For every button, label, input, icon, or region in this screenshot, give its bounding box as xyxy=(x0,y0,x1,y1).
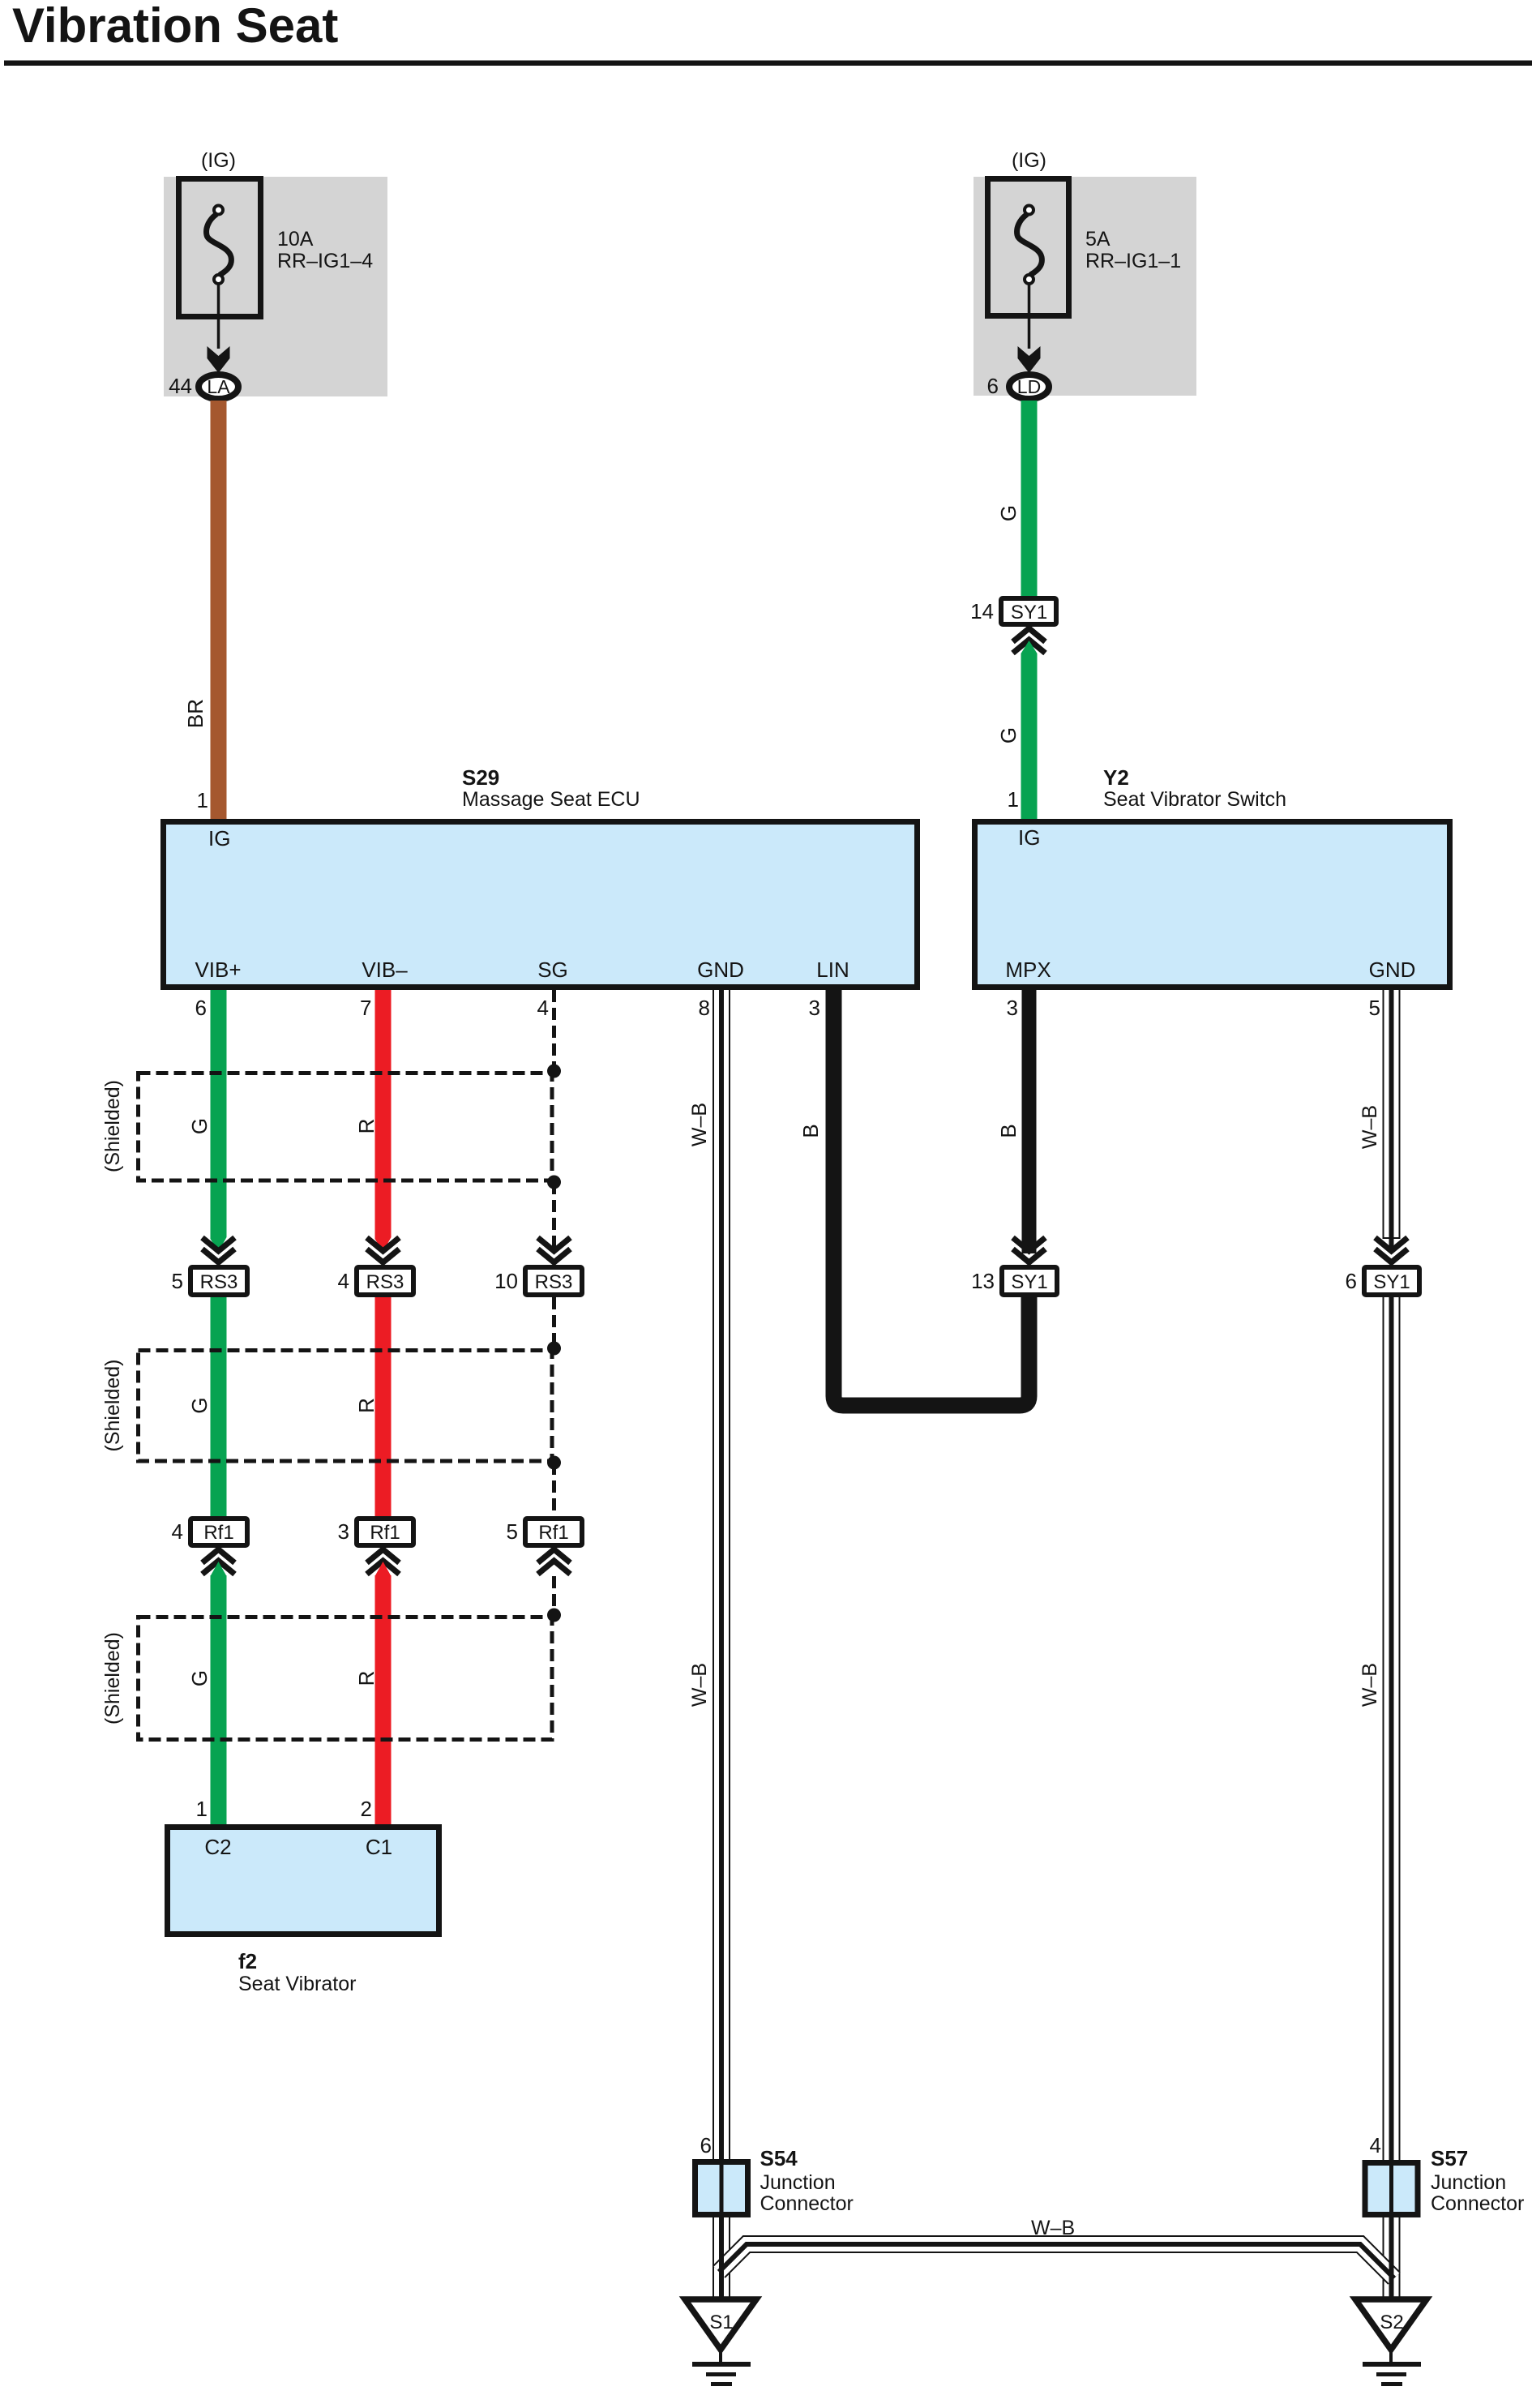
svg-text:Rf1: Rf1 xyxy=(370,1522,400,1544)
svg-text:RS3: RS3 xyxy=(366,1271,404,1293)
svg-text:S54: S54 xyxy=(760,2146,798,2170)
wire SG dashed upper segment xyxy=(552,990,556,1253)
svg-text:(Shielded): (Shielded) xyxy=(101,1632,124,1725)
svg-text:SY1: SY1 xyxy=(1011,602,1047,623)
svg-text:RR–IG1–1: RR–IG1–1 xyxy=(1085,250,1181,272)
svg-text:Connector: Connector xyxy=(760,2192,854,2215)
label (IG) right xyxy=(1012,149,1046,172)
svg-text:10A: 10A xyxy=(277,228,314,251)
fuse 10A RR-IG1-4 xyxy=(179,179,261,349)
wire color label G lower xyxy=(996,727,1021,743)
svg-text:C2: C2 xyxy=(204,1835,231,1859)
wire color label BR xyxy=(183,699,208,728)
title Vibration Seat xyxy=(12,0,338,53)
chevron arrows down above RS3 (G) xyxy=(203,1238,235,1263)
connector 3 Rf1 xyxy=(357,1519,413,1545)
wire color label G shield 3 xyxy=(187,1670,212,1686)
svg-text:W–B: W–B xyxy=(688,1103,711,1146)
wire BR from LA to S29 pin 1 xyxy=(211,401,227,819)
pin number 4 (SG) xyxy=(537,996,549,1020)
wire G from LD to connector SY1 pin 14 xyxy=(1021,401,1038,596)
ground point S1 xyxy=(685,2299,756,2364)
shielded cable box 2 xyxy=(139,1351,553,1462)
pin number 13 (SY1) xyxy=(971,1269,995,1293)
svg-text:6: 6 xyxy=(987,374,999,398)
svg-text:S57: S57 xyxy=(1431,2146,1468,2170)
chevron arrows down above RS3 (SG) xyxy=(538,1238,571,1263)
wire W-B stripe S57 to S2 xyxy=(1389,2217,1394,2304)
svg-text:R: R xyxy=(354,1119,379,1134)
svg-text:Rf1: Rf1 xyxy=(203,1522,233,1544)
label (IG) left xyxy=(201,149,236,172)
svg-text:4: 4 xyxy=(537,996,549,1020)
svg-text:B: B xyxy=(798,1124,823,1138)
svg-text:RS3: RS3 xyxy=(535,1271,573,1293)
svg-text:1: 1 xyxy=(1008,787,1019,812)
svg-text:f2: f2 xyxy=(238,1949,257,1973)
connector 14 SY1 xyxy=(1001,598,1056,624)
pin number 1 (f2 C2) xyxy=(196,1797,208,1821)
svg-text:LD: LD xyxy=(1017,376,1041,397)
svg-text:14: 14 xyxy=(970,599,994,623)
svg-text:3: 3 xyxy=(338,1519,349,1544)
svg-text:3: 3 xyxy=(809,996,820,1020)
vibrator f2 label xyxy=(238,1949,356,1995)
svg-text:S1: S1 xyxy=(709,2312,733,2333)
svg-text:Seat Vibrator: Seat Vibrator xyxy=(238,1973,356,1995)
svg-text:(Shielded): (Shielded) xyxy=(101,1080,124,1172)
ground symbol S1 bars xyxy=(692,2364,751,2384)
wire W-B lower segment to S57 xyxy=(1383,1297,1401,2160)
pin number 3 (LIN) xyxy=(809,996,820,1020)
svg-text:7: 7 xyxy=(360,996,371,1020)
connector 10 RS3 xyxy=(525,1267,582,1295)
svg-text:BR: BR xyxy=(183,699,208,728)
wire W-B from GND pin 8 to S54 xyxy=(713,990,730,2159)
svg-text:Vibration Seat: Vibration Seat xyxy=(12,0,338,53)
pin number 4 (S57) xyxy=(1370,2133,1381,2157)
svg-text:S2: S2 xyxy=(1380,2312,1403,2333)
wire color label R shield 1 xyxy=(354,1119,379,1134)
wire W-B from Y2 GND pin 5 to SY1 pin 6 xyxy=(1383,990,1401,1252)
svg-text:C1: C1 xyxy=(366,1835,392,1859)
shielded cable box 1 xyxy=(139,1073,553,1181)
wire color label G shield 1 xyxy=(187,1118,212,1134)
wire R VIB- middle segment xyxy=(375,1297,392,1516)
svg-text:6: 6 xyxy=(700,2133,712,2157)
svg-text:G: G xyxy=(187,1670,212,1686)
connector 5 Rf1 xyxy=(525,1519,582,1545)
connector 4 Rf1 xyxy=(190,1519,247,1545)
arrowhead into pin 44 xyxy=(208,346,230,373)
wire color label G shield 2 xyxy=(187,1397,212,1413)
svg-text:RS3: RS3 xyxy=(200,1271,238,1293)
ECU S29 label xyxy=(462,765,640,811)
connector pin 6 LD xyxy=(1009,375,1049,399)
fuse 5A RR-IG1-1 xyxy=(988,179,1069,349)
svg-text:5: 5 xyxy=(507,1519,518,1544)
junction dot shield1 top xyxy=(547,1065,561,1078)
svg-text:B: B xyxy=(996,1124,1021,1138)
wire G VIB+ upper segment xyxy=(211,990,227,1252)
svg-text:10: 10 xyxy=(494,1269,518,1293)
chevron arrows up below Rf1 (R) xyxy=(367,1549,400,1575)
ground point S2 xyxy=(1355,2299,1427,2364)
wire color label R shield 2 xyxy=(354,1398,379,1413)
pin number 3 (MPX) xyxy=(1007,996,1018,1020)
svg-text:4: 4 xyxy=(338,1269,349,1293)
junction dot shield2 bottom xyxy=(547,1456,561,1470)
svg-text:MPX: MPX xyxy=(1005,958,1051,982)
svg-text:IG: IG xyxy=(1018,825,1040,850)
pin number 8 (GND) xyxy=(699,996,710,1020)
svg-text:13: 13 xyxy=(971,1269,995,1293)
svg-text:4: 4 xyxy=(172,1519,183,1544)
pin number 1 (Y2 IG) xyxy=(1008,787,1019,812)
switch Y2 Seat Vibrator Switch box xyxy=(975,822,1450,988)
fuse rating label 10A RR-IG1-4 xyxy=(277,228,373,272)
svg-text:(Shielded): (Shielded) xyxy=(101,1360,124,1452)
chevron arrows up below Rf1 (SG) xyxy=(538,1549,571,1575)
wire color label W-B right lower xyxy=(1359,1663,1381,1707)
svg-text:SY1: SY1 xyxy=(1373,1271,1410,1293)
svg-text:5: 5 xyxy=(172,1269,183,1293)
pin number 3 (Rf1) xyxy=(338,1519,349,1544)
svg-text:S29: S29 xyxy=(462,765,499,790)
connector 6 SY1 xyxy=(1364,1267,1419,1295)
label (Shielded) 3 xyxy=(101,1632,124,1725)
pin number 10 (RS3) xyxy=(494,1269,518,1293)
svg-text:G: G xyxy=(996,505,1021,521)
svg-text:8: 8 xyxy=(699,996,710,1020)
svg-text:Seat Vibrator Switch: Seat Vibrator Switch xyxy=(1103,788,1286,811)
svg-text:R: R xyxy=(354,1398,379,1413)
chevron arrows down above SY1 pin 13 xyxy=(1013,1238,1046,1263)
chevron arrows up below SY1 xyxy=(1013,628,1046,653)
svg-text:G: G xyxy=(187,1118,212,1134)
svg-text:RR–IG1–4: RR–IG1–4 xyxy=(277,250,373,272)
svg-text:(IG): (IG) xyxy=(1012,149,1046,172)
shielded cable box 3 xyxy=(139,1617,553,1740)
label (Shielded) 1 xyxy=(101,1080,124,1172)
pin number 1 (S29 IG) xyxy=(197,788,208,812)
pin number 5 (Y2 GND) xyxy=(1369,996,1380,1020)
wire color label W-B left upper xyxy=(688,1103,711,1146)
svg-text:(IG): (IG) xyxy=(201,149,236,172)
svg-text:LIN: LIN xyxy=(816,958,849,982)
wire color label B left xyxy=(798,1124,823,1138)
wire W-B horizontal link between grounds xyxy=(719,2244,1394,2278)
wire SG dashed lower segment xyxy=(552,1576,556,1615)
svg-text:Y2: Y2 xyxy=(1103,765,1129,790)
svg-text:W–B: W–B xyxy=(1359,1105,1381,1149)
svg-text:3: 3 xyxy=(1007,996,1018,1020)
wire color label R shield 3 xyxy=(354,1671,379,1686)
switch Y2 label xyxy=(1103,765,1286,811)
fuse block background left xyxy=(164,177,387,396)
pin number 6 (SY1) xyxy=(1346,1269,1357,1293)
junction connector S54 box xyxy=(695,2159,748,2217)
vibrator f2 Seat Vibrator box xyxy=(168,1827,439,1935)
svg-text:GND: GND xyxy=(697,958,744,982)
pin number 5 (RS3) xyxy=(172,1269,183,1293)
connector pin 44 LA xyxy=(199,375,238,399)
junction connector S54 label xyxy=(760,2146,854,2215)
label (Shielded) 2 xyxy=(101,1360,124,1452)
wire W-B stripe S54 to S1 xyxy=(719,2217,724,2304)
svg-text:6: 6 xyxy=(1346,1269,1357,1293)
svg-text:Massage Seat ECU: Massage Seat ECU xyxy=(462,788,640,811)
wire color label B right xyxy=(996,1124,1021,1138)
chevron arrows down above SY1 pin 6 xyxy=(1376,1238,1408,1263)
connector 4 RS3 xyxy=(357,1267,413,1295)
pin number 5 (Rf1) xyxy=(507,1519,518,1544)
pin number 6 xyxy=(987,374,999,398)
wire W-B from S57 to ground S2 xyxy=(1383,2217,1401,2303)
svg-text:1: 1 xyxy=(197,788,208,812)
fuse block background right xyxy=(974,177,1196,396)
junction dot shield3 top xyxy=(547,1609,561,1622)
svg-text:W–B: W–B xyxy=(1359,1663,1381,1707)
wire color label W-B right upper xyxy=(1359,1105,1381,1149)
svg-text:Connector: Connector xyxy=(1431,2192,1524,2215)
pin number 6 (S54) xyxy=(700,2133,712,2157)
pin number 4 (RS3) xyxy=(338,1269,349,1293)
svg-text:4: 4 xyxy=(1370,2133,1381,2157)
pin number 4 (Rf1) xyxy=(172,1519,183,1544)
svg-text:W–B: W–B xyxy=(688,1663,711,1707)
pin number 7 (VIB-) xyxy=(360,996,371,1020)
junction dot shield1 bottom xyxy=(547,1176,561,1189)
ground symbol S2 bars xyxy=(1363,2364,1421,2384)
fuse rating label 5A RR-IG1-1 xyxy=(1085,228,1181,272)
connector 5 RS3 xyxy=(190,1267,247,1295)
svg-text:SY1: SY1 xyxy=(1011,1271,1047,1293)
wire color label G upper xyxy=(996,505,1021,521)
svg-text:2: 2 xyxy=(361,1797,372,1821)
svg-text:5A: 5A xyxy=(1085,228,1110,251)
wire R VIB- lower segment xyxy=(375,1562,392,1824)
wire B from MPX pin 3 to SY1 xyxy=(1022,990,1037,1253)
wire G from SY1 to Y2 pin 1 xyxy=(1021,641,1038,819)
svg-text:VIB–: VIB– xyxy=(362,958,408,982)
svg-text:1: 1 xyxy=(196,1797,208,1821)
svg-text:44: 44 xyxy=(169,374,192,398)
svg-text:GND: GND xyxy=(1369,958,1416,982)
svg-text:5: 5 xyxy=(1369,996,1380,1020)
pin number 6 (VIB+) xyxy=(195,996,207,1020)
svg-text:R: R xyxy=(354,1671,379,1686)
svg-text:IG: IG xyxy=(208,826,230,851)
wire R VIB- upper segment xyxy=(375,990,392,1252)
wire B from LIN pin 3 to SY1 pin 13 xyxy=(834,990,1029,1406)
svg-text:LA: LA xyxy=(207,376,230,397)
wire W-B from S54 to ground S1 xyxy=(713,2217,730,2303)
svg-text:G: G xyxy=(996,727,1021,743)
connector 13 SY1 xyxy=(1002,1267,1057,1295)
svg-text:VIB+: VIB+ xyxy=(195,958,241,982)
pin number 44 xyxy=(169,374,192,398)
chevron arrows down above RS3 (R) xyxy=(367,1238,400,1263)
junction dot shield2 top xyxy=(547,1342,561,1356)
wire color label W-B horizontal xyxy=(1031,2217,1075,2239)
svg-text:Junction: Junction xyxy=(760,2171,836,2194)
svg-text:SG: SG xyxy=(537,958,568,982)
wire G VIB+ lower segment xyxy=(211,1562,227,1824)
junction connector S57 label xyxy=(1431,2146,1524,2215)
arrowhead into pin 6 xyxy=(1018,346,1041,373)
wire G VIB+ middle segment xyxy=(211,1297,227,1516)
pin number 2 (f2 C1) xyxy=(361,1797,372,1821)
wire color label W-B left lower xyxy=(688,1663,711,1707)
pin number 14 xyxy=(970,599,994,623)
svg-text:G: G xyxy=(187,1397,212,1413)
ECU S29 Massage Seat ECU box xyxy=(164,822,918,988)
svg-text:W–B: W–B xyxy=(1031,2217,1075,2239)
svg-text:Rf1: Rf1 xyxy=(538,1522,568,1544)
svg-text:Junction: Junction xyxy=(1431,2171,1506,2194)
title rule xyxy=(4,61,1532,66)
chevron arrows up below Rf1 (G) xyxy=(203,1549,235,1575)
junction connector S57 box xyxy=(1365,2160,1418,2217)
wire SG dashed middle segment xyxy=(552,1297,556,1516)
svg-text:6: 6 xyxy=(195,996,207,1020)
